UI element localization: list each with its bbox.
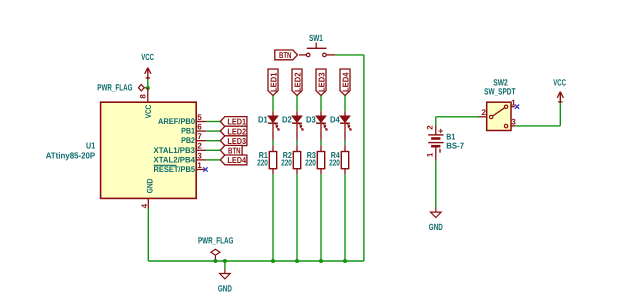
wire LED2 to D2 (296, 96, 298, 112)
global label LED3 (220, 136, 247, 146)
svg-text:7: 7 (197, 132, 202, 141)
svg-text:3: 3 (197, 151, 202, 160)
resistor R1 220 (272, 145, 274, 151)
global label LED2 (220, 126, 247, 136)
svg-text:GND: GND (218, 284, 232, 294)
global label LED1 (220, 117, 247, 127)
pin 1 of SW2 (511, 106, 515, 108)
svg-text:6: 6 (197, 123, 202, 132)
wire VCC to junction (147, 80, 149, 89)
svg-text:VCC: VCC (141, 52, 154, 62)
pin 3 of SW2 (511, 125, 515, 127)
svg-text:RESET/PB5: RESET/PB5 (154, 165, 196, 174)
battery B1 BS-7 (436, 116, 479, 118)
junction at VCC / PWR_FLAG / pin 8 (146, 86, 150, 90)
junction PWR_FLAG / bus (213, 259, 217, 263)
svg-text:2: 2 (481, 108, 486, 117)
wire pin to label BTN (206, 149, 220, 151)
wire pin to label LED4 (206, 159, 220, 161)
pin 3 (XTAL2/PB4) of U1 (196, 159, 206, 161)
wire D3 to R3 (320, 140, 322, 145)
global label LED3 (vertical) (316, 69, 326, 96)
svg-text:LED1: LED1 (227, 117, 246, 127)
svg-text:D1: D1 (258, 115, 268, 125)
junction GND / bus (223, 259, 227, 263)
junction R4 / bus (343, 259, 347, 263)
svg-text:D2: D2 (282, 115, 292, 125)
LED D1 (272, 111, 274, 116)
wire R1 to ground bus (272, 174, 274, 261)
resistor R4 220 (344, 145, 346, 151)
pin 1 (RESET/PB5) of U1 (196, 169, 205, 171)
no-connect on pin 1 (203, 167, 207, 171)
wire pin 4 down to bus (147, 208, 149, 261)
wire R2 to ground bus (296, 174, 298, 261)
svg-text:PB2: PB2 (181, 136, 195, 145)
global label LED2 (vertical) (292, 69, 302, 96)
pin 8 (VCC) of U1 (147, 88, 149, 102)
svg-text:XTAL1/PB3: XTAL1/PB3 (154, 146, 196, 155)
LED D2 (296, 111, 298, 116)
junction R3 / bus (319, 259, 323, 263)
svg-text:PWR_FLAG: PWR_FLAG (198, 236, 234, 246)
global label BTN at SW1 (275, 50, 298, 60)
svg-text:220: 220 (257, 158, 268, 168)
svg-text:LED1: LED1 (268, 72, 278, 92)
no-connect on SW2 pin 1 (515, 105, 519, 109)
wire pin to label LED1 (206, 121, 220, 123)
svg-text:GND: GND (146, 178, 155, 193)
pin 2 of SW2 (479, 116, 487, 118)
wire pin to label LED2 (206, 130, 220, 132)
global label BTN (220, 145, 242, 155)
global label LED4 (220, 155, 247, 165)
wire LED3 to D3 (320, 96, 322, 112)
IC U1 ATtiny85-20P body (101, 102, 197, 198)
junction R2 / bus (295, 259, 299, 263)
pin 6 (PB1) of U1 (196, 130, 206, 132)
ground symbol GND (bottom left) (224, 261, 226, 269)
power symbol VCC (right) (559, 92, 561, 103)
global label LED4 (vertical) (340, 69, 350, 96)
svg-text:GND: GND (429, 222, 443, 232)
svg-text:1: 1 (197, 161, 202, 170)
svg-text:LED3: LED3 (316, 72, 326, 92)
global label LED1 (vertical) (268, 69, 278, 96)
svg-text:LED2: LED2 (292, 72, 302, 92)
svg-text:BS-7: BS-7 (446, 141, 464, 151)
svg-text:VCC: VCC (144, 105, 153, 119)
svg-text:D3: D3 (306, 115, 316, 125)
wire ground bus (148, 260, 364, 262)
svg-text:U1: U1 (86, 141, 95, 151)
pin 4 (GND) of U1 (147, 198, 149, 208)
wire LED1 to D1 (272, 96, 274, 112)
svg-text:BTN: BTN (279, 50, 292, 60)
pin 5 (AREF/PB0) of U1 (196, 121, 206, 123)
LED D4 (344, 111, 346, 116)
LED D3 (320, 111, 322, 116)
wire R4 to ground bus (344, 174, 346, 261)
svg-text:LED2: LED2 (227, 126, 246, 136)
svg-text:3: 3 (511, 118, 516, 127)
svg-text:220: 220 (329, 158, 340, 168)
svg-text:PB1: PB1 (181, 127, 195, 136)
wire right rail down (363, 55, 365, 261)
wire battery to GND (435, 160, 437, 207)
junction R1 / bus (271, 259, 275, 263)
svg-text:220: 220 (305, 158, 316, 168)
svg-text:ATtiny85-20P: ATtiny85-20P (46, 151, 96, 161)
pin 2 (XTAL1/PB3) of U1 (196, 149, 206, 151)
svg-text:SW1: SW1 (309, 33, 323, 43)
svg-text:LED3: LED3 (227, 136, 246, 146)
wire SW2 pin 3 to VCC (515, 125, 560, 127)
wire D2 to R2 (296, 140, 298, 145)
ground symbol GND (right) (435, 208, 437, 213)
switch contacts (490, 115, 493, 118)
wire R3 to ground bus (320, 174, 322, 261)
svg-text:5: 5 (197, 113, 202, 122)
wire SW1 to right rail (335, 54, 364, 56)
wire D1 to R1 (272, 140, 274, 145)
svg-text:1: 1 (511, 98, 516, 107)
wire LED4 to D4 (344, 96, 346, 112)
svg-text:PWR_FLAG: PWR_FLAG (97, 83, 132, 93)
svg-text:VCC: VCC (553, 77, 566, 87)
wire D4 to R4 (344, 140, 346, 145)
resistor R2 220 (296, 145, 298, 151)
wire pin to label LED3 (206, 140, 220, 142)
svg-text:AREF/PB0: AREF/PB0 (158, 117, 195, 126)
svg-text:D4: D4 (330, 115, 340, 125)
svg-text:SW_SPDT: SW_SPDT (484, 86, 516, 96)
svg-text:XTAL2/PB4: XTAL2/PB4 (154, 155, 196, 164)
svg-text:BTN: BTN (228, 146, 241, 156)
svg-text:LED4: LED4 (340, 72, 350, 92)
resistor R3 220 (320, 145, 322, 151)
pin 2 of SW1 (326, 54, 335, 56)
svg-text:2: 2 (197, 142, 202, 151)
svg-text:LED4: LED4 (227, 155, 246, 165)
svg-text:220: 220 (281, 158, 292, 168)
pin 7 (PB2) of U1 (196, 140, 206, 142)
pin 1 of SW1 (299, 54, 306, 56)
